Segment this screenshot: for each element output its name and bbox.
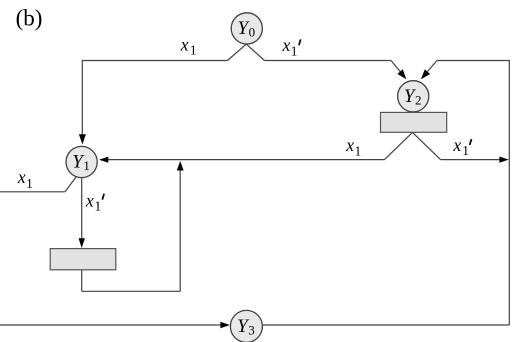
wire Y2 branch left diagonal bbox=[385, 132, 413, 159]
wire Y0 branch right diagonal bbox=[247, 44, 265, 60]
wire right vertical border bbox=[508, 60, 510, 325]
wire bottom horizontal into Y3 bbox=[0, 324, 221, 326]
svg-text:x: x bbox=[180, 34, 189, 54]
arrowhead up into x1 line bbox=[177, 161, 184, 171]
arrowhead into Y2 top-left bbox=[397, 69, 406, 79]
svg-text:1: 1 bbox=[26, 176, 33, 191]
wire top-right horizontal bbox=[437, 60, 509, 62]
arrowhead into right border bbox=[499, 157, 508, 163]
arrowhead into output box top bbox=[79, 238, 85, 248]
wire Y1 x1' vertical down to output box bbox=[81, 178, 83, 239]
wire x1' horizontal to right border bbox=[441, 159, 501, 161]
state circle Y1 bbox=[66, 146, 97, 177]
arrowhead into Y1 top bbox=[79, 134, 86, 144]
state circle Y0 bbox=[231, 13, 262, 44]
wire diagonal into Y2 top-right bbox=[428, 61, 438, 72]
svg-text:2: 2 bbox=[415, 92, 422, 107]
svg-text:0: 0 bbox=[249, 24, 256, 39]
wire from output box bottom down bbox=[81, 270, 83, 292]
svg-text:x: x bbox=[17, 167, 26, 187]
output box under Y2 bbox=[381, 112, 447, 132]
svg-text:1: 1 bbox=[355, 143, 362, 158]
wire x1' horizontal right of Y0 bbox=[265, 60, 392, 62]
svg-text:1: 1 bbox=[83, 158, 90, 173]
svg-text:x: x bbox=[85, 190, 94, 210]
wire feedback vertical up bbox=[179, 166, 181, 291]
svg-text:1: 1 bbox=[95, 198, 102, 213]
svg-text:1: 1 bbox=[190, 43, 197, 58]
arrowhead into Y1 right bbox=[99, 157, 108, 163]
wire x1 horizontal exiting left bbox=[0, 191, 65, 193]
wire x1 horizontal from Y2 branch to Y1 bbox=[107, 159, 385, 161]
svg-text:1: 1 bbox=[291, 44, 298, 59]
svg-text:3: 3 bbox=[248, 322, 255, 337]
wire feedback horizontal bottom bbox=[82, 290, 181, 292]
wire x1 horizontal from Y0 branch to left corner bbox=[82, 60, 227, 62]
wire diagonal into Y2 top-left bbox=[391, 61, 401, 73]
arrowhead into Y2 top-right bbox=[421, 69, 430, 79]
wire from Y3 right to border bbox=[263, 324, 510, 326]
output box under Y1 bbox=[50, 249, 116, 270]
state circle Y2 bbox=[398, 81, 429, 112]
wire Y2 branch right diagonal bbox=[413, 132, 441, 159]
svg-text:(b): (b) bbox=[16, 6, 43, 31]
arrowhead into Y3 left bbox=[220, 322, 230, 328]
svg-text:x: x bbox=[282, 35, 291, 55]
svg-text:1: 1 bbox=[462, 143, 469, 158]
wire vertical down into Y1 bbox=[81, 60, 83, 136]
state circle Y3 bbox=[230, 310, 262, 342]
wire Y1 x1 diagonal to lower-left bbox=[65, 177, 76, 192]
svg-text:x: x bbox=[452, 135, 461, 155]
svg-text:x: x bbox=[345, 135, 354, 155]
wire Y0 branch left diagonal bbox=[228, 44, 247, 60]
